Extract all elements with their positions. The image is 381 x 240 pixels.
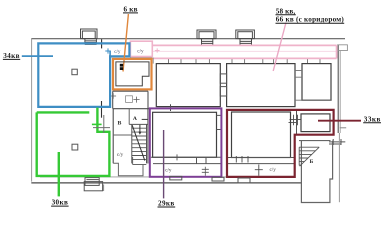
svg-text:А: А xyxy=(133,116,137,122)
pink corridor right end xyxy=(336,45,338,58)
svg-text:с/у: с/у xyxy=(165,168,172,174)
building outer left wall xyxy=(31,39,33,182)
stair block plus mark left xyxy=(110,93,116,99)
stair landing walls xyxy=(113,157,146,176)
tick crossing blue bottom edge xyxy=(101,101,103,118)
stair hall right wall xyxy=(147,109,149,164)
33kv pointer line xyxy=(318,120,361,122)
staircase A treads xyxy=(132,128,147,159)
building right wall double line xyxy=(337,45,339,133)
plumbing crosses between rooms B and C xyxy=(289,115,302,125)
svg-text:30кв: 30кв xyxy=(52,199,68,207)
stairwell B top wall xyxy=(299,140,331,142)
34kv cell left wall xyxy=(109,51,111,57)
svg-text:66 кв (с коридором): 66 кв (с коридором) xyxy=(276,16,345,24)
6kv black icon xyxy=(120,64,123,67)
33kv door mark xyxy=(255,165,263,176)
wall below pink cell corner xyxy=(152,58,154,64)
30kv pointer line xyxy=(58,152,60,196)
pink su cell xyxy=(130,41,152,56)
tick crossing purple top under room A xyxy=(170,104,172,111)
svg-text:с/у: с/у xyxy=(117,152,124,158)
corridor wall ticks xyxy=(169,59,321,64)
svg-text:33кв: 33кв xyxy=(364,115,381,123)
34kv blue plus tick xyxy=(105,48,110,53)
svg-text:с/у: с/у xyxy=(114,49,121,55)
34kv pointer line xyxy=(22,55,53,57)
tick below bottom wall xyxy=(103,185,105,192)
pink corridor faint centre line xyxy=(152,50,336,52)
svg-text:29кв: 29кв xyxy=(158,200,174,208)
apartment 33kv maroon outline xyxy=(227,110,334,177)
pink corridor bottom line xyxy=(152,57,336,59)
staircase B diagonal xyxy=(300,147,320,166)
apartment 6kv orange outline xyxy=(113,59,152,90)
apartment 29kv purple outline xyxy=(150,108,222,176)
29kv door leaf dividers xyxy=(197,157,207,163)
staircase A down arrow xyxy=(139,125,141,133)
apartment 34kv blue outline xyxy=(38,43,129,107)
ticks between rooms B and C xyxy=(295,70,302,77)
29kv door symbol xyxy=(202,167,209,176)
stair block plus mark right xyxy=(133,97,139,103)
29kv small wall tick xyxy=(176,154,178,160)
29kv lower strip walls xyxy=(151,157,222,163)
room C outline xyxy=(302,64,331,101)
staircase A diagonal xyxy=(132,125,145,160)
room A outline xyxy=(156,64,220,107)
29kv pointer line xyxy=(163,130,165,198)
34kv inner square xyxy=(72,69,77,75)
chimney C2 top-middle xyxy=(197,30,216,45)
room B outline xyxy=(227,64,295,107)
protrusion outer right line xyxy=(338,133,340,202)
svg-text:34кв: 34кв xyxy=(3,52,19,60)
right wall tick xyxy=(340,127,347,129)
right wall window marks xyxy=(329,139,345,145)
bottom-right protrusion outline xyxy=(301,141,332,203)
30kv inner square xyxy=(72,144,78,150)
stair hall outline xyxy=(113,109,151,164)
svg-text:Б: Б xyxy=(310,159,314,165)
svg-text:58 кв,: 58 кв, xyxy=(276,7,296,15)
staircase B treads xyxy=(299,147,319,166)
6kv pointer line xyxy=(123,14,128,72)
apartment 30kv green outline xyxy=(37,108,110,176)
tick near A xyxy=(142,118,148,120)
stair block top room walls xyxy=(113,91,148,108)
svg-text:с/у: с/у xyxy=(270,167,277,173)
svg-text:с/у: с/у xyxy=(137,48,144,54)
pink corridor top line xyxy=(152,44,336,46)
33kv window mark xyxy=(236,156,248,163)
wall under pink su cell xyxy=(130,57,152,59)
window on bottom wall right xyxy=(238,178,250,183)
pink pointer line 58/66kv xyxy=(273,23,286,72)
chimney C1 top-left xyxy=(81,29,98,45)
tick crossing top wall near blue corner xyxy=(101,39,103,48)
stair hall inner wall vertical xyxy=(128,109,130,125)
apartment 33kv annex room outline xyxy=(301,114,330,132)
wall line near green step xyxy=(93,115,110,133)
stair top wall xyxy=(129,123,148,125)
right wall bracket xyxy=(337,45,347,51)
chimney bottom xyxy=(84,178,102,191)
building outer top wall xyxy=(31,38,345,40)
inner bottom wall line xyxy=(40,176,295,178)
staircase A rails xyxy=(132,124,147,163)
30kv green tick xyxy=(92,123,102,125)
6kv inner room outline xyxy=(116,62,149,86)
29kv inner room outline xyxy=(153,112,217,157)
33kv lower strip walls xyxy=(227,158,295,164)
29kv wall ticks right xyxy=(217,115,222,129)
building outer bottom wall xyxy=(31,182,301,184)
stair hall wall at 135 xyxy=(113,134,132,136)
window on bottom wall left xyxy=(170,176,182,180)
svg-text:В: В xyxy=(118,121,122,127)
apartment 33kv main room outline xyxy=(232,112,291,158)
lobby wall left of annex xyxy=(296,110,298,135)
stair block small rect xyxy=(126,96,133,103)
chimney C3 top-right xyxy=(236,30,255,45)
window on bottom wall middle xyxy=(212,177,224,181)
pink plus tick xyxy=(155,48,160,52)
door leafs between rooms A and B xyxy=(220,74,226,83)
